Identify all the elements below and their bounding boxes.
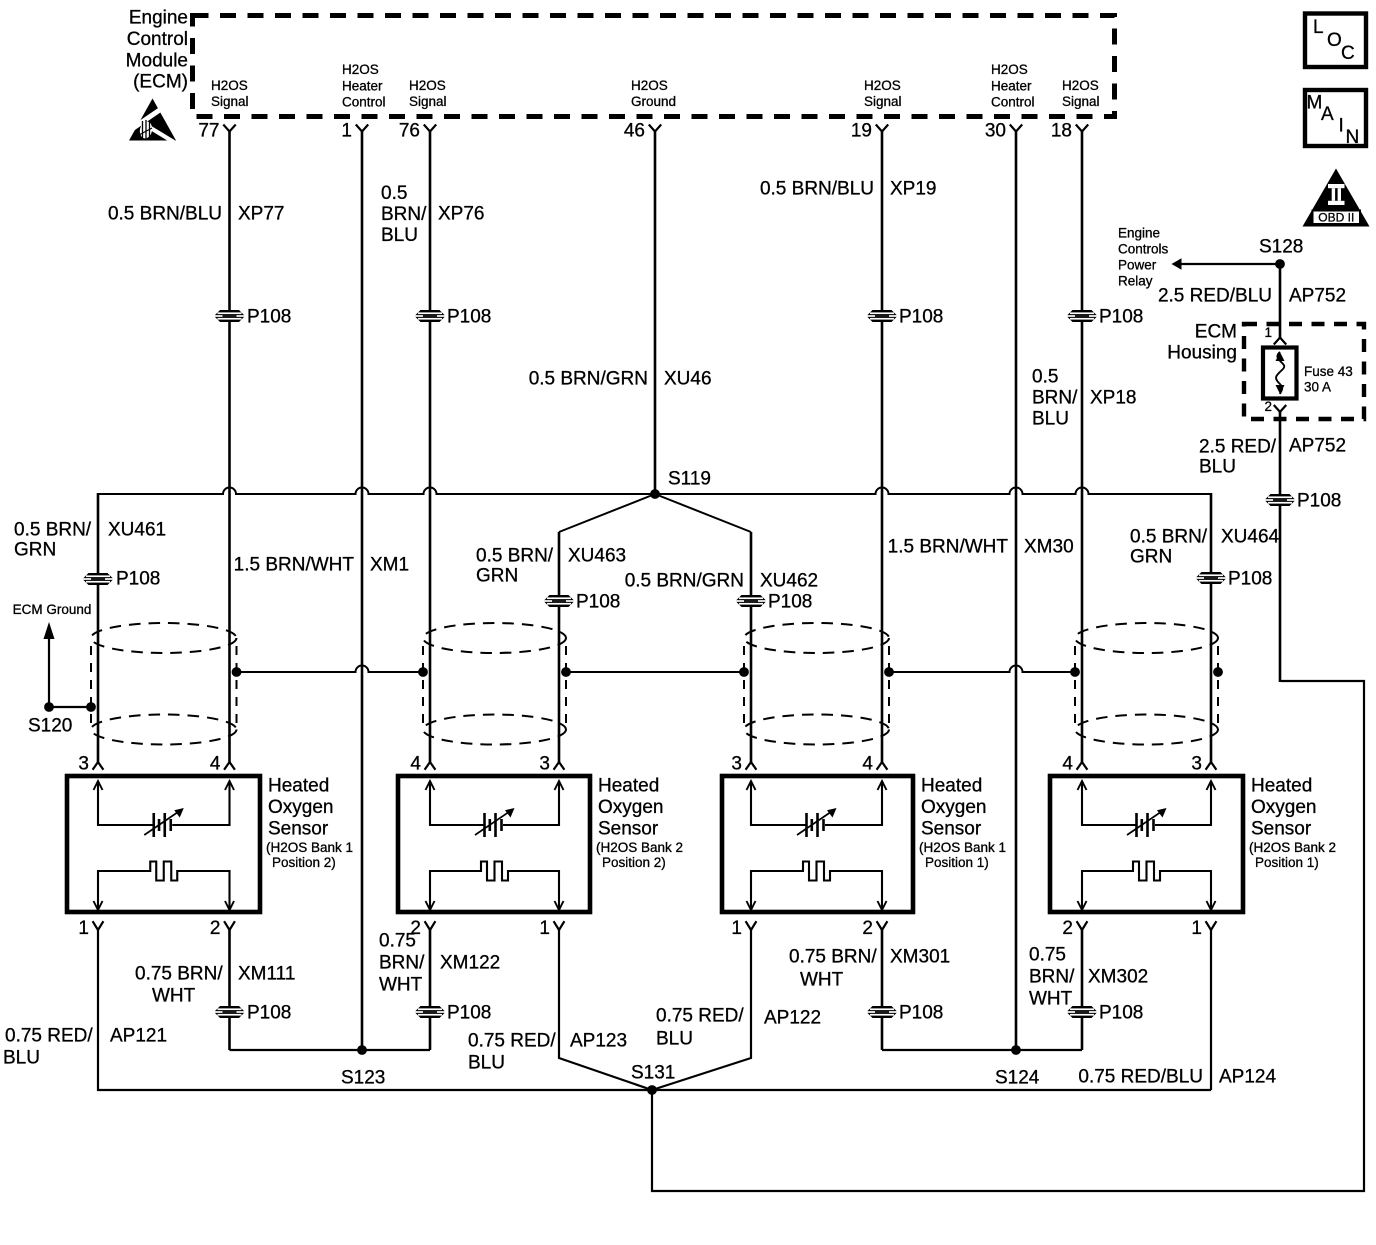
svg-text:H2OS: H2OS xyxy=(409,78,446,93)
wire XU461 0.5 BRN/GRN (bus to sensor1 pin 3) xyxy=(97,493,100,762)
wire XM302 0.75 BRN/WHT (sensor4 pin 2 to S124) xyxy=(1081,930,1084,1050)
svg-text:0.75: 0.75 xyxy=(1029,945,1066,966)
svg-text:WHT: WHT xyxy=(152,986,196,1007)
connector P108 on XM122 xyxy=(415,1003,492,1024)
svg-text:1.5 BRN/WHT: 1.5 BRN/WHT xyxy=(234,555,355,576)
svg-text:P108: P108 xyxy=(899,1003,943,1024)
sensor label (H2OS Bank 1 Position 1) xyxy=(919,776,1006,870)
sensor cell element (variable voltage cell) xyxy=(94,781,235,837)
svg-text:XM30: XM30 xyxy=(1024,537,1074,558)
svg-text:XM111: XM111 xyxy=(238,964,295,985)
svg-text:Fuse 43: Fuse 43 xyxy=(1304,364,1353,379)
connector P108 on XP76 xyxy=(415,307,492,328)
svg-text:Signal: Signal xyxy=(409,94,447,109)
svg-text:S120: S120 xyxy=(28,716,72,737)
svg-text:0.75 BRN/: 0.75 BRN/ xyxy=(135,964,223,985)
ECM pin 18 terminal xyxy=(1051,78,1100,142)
svg-text:S124: S124 xyxy=(995,1068,1040,1089)
sensor heater element xyxy=(94,862,235,911)
wire XP19 0.5 BRN/BLU (pin 19 to sensor3 pin 4) xyxy=(881,132,884,763)
wire XM30 1.5 BRN/WHT (pin 30 heater control to S124) xyxy=(1015,132,1018,1051)
wire branch S119 to XU462 xyxy=(655,494,751,532)
sensor pin 4 terminal (top left) xyxy=(410,754,435,775)
label 0.5 BRN/BLU XP76 xyxy=(381,183,484,246)
svg-text:BRN/: BRN/ xyxy=(379,953,425,974)
svg-text:(H2OS Bank 1: (H2OS Bank 1 xyxy=(266,840,353,855)
wire XP76 0.5 BRN/BLU (pin 76 to sensor2 pin 4) xyxy=(429,132,432,763)
svg-text:3: 3 xyxy=(78,754,89,775)
svg-text:P108: P108 xyxy=(447,1003,491,1024)
svg-text:XM1: XM1 xyxy=(370,555,409,576)
svg-text:4: 4 xyxy=(410,754,421,775)
svg-text:2.5 RED/: 2.5 RED/ xyxy=(1199,437,1277,458)
sensor pin 3 terminal (top left) xyxy=(78,754,103,775)
svg-text:Housing: Housing xyxy=(1167,343,1237,364)
svg-text:L: L xyxy=(1313,17,1324,38)
sensor cell element (variable voltage cell) xyxy=(426,781,564,837)
svg-text:Control: Control xyxy=(127,29,188,50)
svg-text:Heated: Heated xyxy=(1251,776,1312,797)
connector P108 on XM302 xyxy=(1067,1003,1144,1024)
ground bus wire from XU461 to XU464 (hops over crossing wires) xyxy=(98,488,1211,495)
svg-text:H2OS: H2OS xyxy=(342,62,379,77)
svg-text:3: 3 xyxy=(1191,754,1202,775)
connector P108 on XU461 xyxy=(83,569,161,590)
connector P108 on XU463 xyxy=(544,592,621,613)
splice S123 wire xyxy=(230,1045,431,1089)
sensor heater element xyxy=(1078,862,1216,911)
svg-text:H2OS: H2OS xyxy=(211,78,248,93)
svg-text:2: 2 xyxy=(1264,399,1272,414)
svg-text:Engine: Engine xyxy=(1118,225,1160,240)
svg-text:P108: P108 xyxy=(447,307,491,328)
svg-text:4: 4 xyxy=(210,754,221,775)
svg-text:P108: P108 xyxy=(1297,491,1341,512)
wire from Engine Controls Power Relay to S128 (arrow) xyxy=(1172,258,1281,270)
label 0.75 BRN/WHT XM111 xyxy=(135,964,295,1007)
svg-text:1: 1 xyxy=(341,121,352,142)
svg-text:BLU: BLU xyxy=(381,225,418,246)
label 0.5 BRN/GRN XU463 xyxy=(476,546,626,587)
svg-text:A: A xyxy=(1321,104,1334,125)
svg-text:P108: P108 xyxy=(247,1003,291,1024)
svg-text:Oxygen: Oxygen xyxy=(268,797,333,818)
MAIN reference box xyxy=(1305,90,1366,148)
svg-text:4: 4 xyxy=(1062,754,1073,775)
label 0.75 BRN/WHT XM122 xyxy=(379,931,500,996)
sensor cell element (variable voltage cell) xyxy=(747,781,887,837)
svg-text:(ECM): (ECM) xyxy=(133,72,188,93)
svg-text:Controls: Controls xyxy=(1118,241,1169,256)
svg-text:Signal: Signal xyxy=(864,94,902,109)
splice S131 xyxy=(631,1063,675,1095)
svg-text:ECM Ground: ECM Ground xyxy=(13,602,92,617)
fuse pin 1 terminal xyxy=(1264,325,1286,345)
svg-text:0.5 BRN/BLU: 0.5 BRN/BLU xyxy=(760,179,874,200)
wire XP18 0.5 BRN/BLU (pin 18 to sensor4 pin 4) xyxy=(1081,132,1084,763)
svg-text:AP123: AP123 xyxy=(570,1031,627,1052)
svg-text:GRN: GRN xyxy=(1130,547,1172,568)
label 0.5 BRN/BLU XP77 xyxy=(108,204,285,225)
svg-text:0.5 BRN/BLU: 0.5 BRN/BLU xyxy=(108,204,222,225)
label 0.5 BRN/BLU XP19 xyxy=(760,179,937,200)
sensor pin 1 terminal (bottom right) xyxy=(539,918,564,939)
svg-text:Position 2): Position 2) xyxy=(272,855,336,870)
svg-text:P108: P108 xyxy=(576,592,620,613)
svg-text:XP76: XP76 xyxy=(438,204,484,225)
svg-text:XM122: XM122 xyxy=(440,953,500,974)
sensor cell element (variable voltage cell) xyxy=(1078,781,1216,837)
heated oxygen sensor box (H2OS Bank 1 Position 2) xyxy=(67,776,260,912)
wire XU464 0.5 BRN/GRN (bus to sensor4 pin 3) xyxy=(1210,493,1213,762)
svg-text:0.75 RED/BLU: 0.75 RED/BLU xyxy=(1078,1067,1203,1088)
wire S131 loop to fuse (bottom return) xyxy=(652,681,1364,1191)
svg-text:1: 1 xyxy=(78,918,89,939)
wire S131 to AP124 xyxy=(652,1089,1211,1091)
svg-text:P108: P108 xyxy=(1099,307,1143,328)
ECM Housing dashed box xyxy=(1244,324,1364,419)
svg-text:Heater: Heater xyxy=(991,78,1032,93)
fuse pin 2 terminal xyxy=(1264,399,1286,414)
svg-text:19: 19 xyxy=(851,121,872,142)
svg-text:XU461: XU461 xyxy=(108,520,166,541)
wire XU462 0.5 BRN/GRN (S119 to sensor3 pin 3) xyxy=(750,532,753,762)
wire AP752 2.5 RED/BLU (S128 to fuse 43) xyxy=(1279,264,1282,338)
svg-text:P108: P108 xyxy=(768,592,812,613)
svg-text:GRN: GRN xyxy=(14,540,56,561)
label 2.5 RED/BLU AP752 (below fuse) xyxy=(1199,436,1346,478)
sensor pin 2 terminal (bottom right) xyxy=(862,918,887,939)
wire AP123 0.75 RED/BLU (sensor2 pin 1 to S131) xyxy=(559,930,652,1090)
svg-text:Oxygen: Oxygen xyxy=(1251,797,1316,818)
svg-text:AP752: AP752 xyxy=(1289,286,1346,307)
svg-text:GRN: GRN xyxy=(476,566,518,587)
svg-text:OBD II: OBD II xyxy=(1318,211,1354,225)
label 0.75 RED/BLU AP121 xyxy=(3,1026,167,1069)
svg-text:BLU: BLU xyxy=(468,1053,505,1074)
sensor pin 4 terminal (top left) xyxy=(1062,754,1087,775)
heated oxygen sensor box (H2OS Bank 2 Position 1) xyxy=(1050,776,1243,912)
svg-text:O: O xyxy=(1327,30,1342,51)
svg-text:S123: S123 xyxy=(341,1068,385,1089)
svg-text:0.5: 0.5 xyxy=(381,183,407,204)
svg-text:0.75 RED/: 0.75 RED/ xyxy=(468,1031,556,1052)
fuse 43 30A xyxy=(1263,348,1297,399)
sensor4 cable shield (dashed cylinder) xyxy=(1075,623,1218,745)
svg-text:S128: S128 xyxy=(1259,237,1303,258)
ECM pin 1 terminal xyxy=(341,62,385,142)
svg-text:Heated: Heated xyxy=(268,776,329,797)
ECM pin 30 terminal xyxy=(985,62,1035,142)
splice S124 wire xyxy=(882,1045,1082,1089)
svg-text:H2OS: H2OS xyxy=(991,62,1028,77)
svg-text:Position 1): Position 1) xyxy=(1255,855,1319,870)
ECM pin 77 terminal xyxy=(198,78,248,142)
svg-text:WHT: WHT xyxy=(800,970,844,991)
sensor pin 1 terminal (bottom right) xyxy=(1191,918,1216,939)
svg-text:Signal: Signal xyxy=(1062,94,1100,109)
sensor label (H2OS Bank 2 Position 2) xyxy=(596,776,683,870)
wire XP77 0.5 BRN/BLU (pin 77 to sensor1 pin 4) xyxy=(228,132,231,763)
svg-text:1: 1 xyxy=(1191,918,1202,939)
svg-text:Relay: Relay xyxy=(1118,273,1153,288)
svg-text:Sensor: Sensor xyxy=(921,819,982,840)
svg-text:P108: P108 xyxy=(1228,569,1272,590)
svg-text:P108: P108 xyxy=(116,569,160,590)
wire AP121 0.75 RED/BLU (sensor1 pin 1 to S131) xyxy=(98,930,652,1090)
svg-text:0.5 BRN/: 0.5 BRN/ xyxy=(14,520,92,541)
svg-text:Control: Control xyxy=(342,94,386,109)
sensor pin 2 terminal (bottom right) xyxy=(210,918,235,939)
svg-text:BLU: BLU xyxy=(1199,457,1236,478)
shield link wire sensor3 to sensor4 xyxy=(884,666,1080,677)
sensor heater element xyxy=(747,862,887,911)
svg-text:3: 3 xyxy=(539,754,550,775)
svg-text:0.75 RED/: 0.75 RED/ xyxy=(5,1026,93,1047)
svg-text:XU462: XU462 xyxy=(760,571,818,592)
label 0.5 BRN/GRN XU462 xyxy=(625,571,818,592)
wire XU463 0.5 BRN/GRN (S119 to sensor2 pin 3) xyxy=(558,532,561,762)
svg-text:AP124: AP124 xyxy=(1219,1067,1276,1088)
svg-text:76: 76 xyxy=(399,121,420,142)
svg-text:0.5 BRN/GRN: 0.5 BRN/GRN xyxy=(625,571,744,592)
svg-text:(H2OS Bank 2: (H2OS Bank 2 xyxy=(596,840,683,855)
svg-text:(H2OS Bank 2: (H2OS Bank 2 xyxy=(1249,840,1336,855)
label 1.5 BRN/WHT XM1 xyxy=(234,555,409,576)
svg-text:Heater: Heater xyxy=(342,78,383,93)
svg-text:H2OS: H2OS xyxy=(864,78,901,93)
connector P108 on XP77 xyxy=(214,307,291,328)
svg-text:WHT: WHT xyxy=(1029,989,1073,1010)
sensor pin 1 terminal (bottom left) xyxy=(78,918,103,939)
splice S128 xyxy=(1259,237,1303,269)
svg-text:1: 1 xyxy=(539,918,550,939)
svg-text:ECM: ECM xyxy=(1195,322,1237,343)
svg-text:S119: S119 xyxy=(668,469,711,490)
svg-text:Ground: Ground xyxy=(631,94,676,109)
svg-text:BRN/: BRN/ xyxy=(381,204,427,225)
svg-text:46: 46 xyxy=(624,121,645,142)
label 0.5 BRN/GRN XU464 xyxy=(1130,527,1280,568)
svg-text:2: 2 xyxy=(1062,918,1073,939)
heated oxygen sensor box (H2OS Bank 2 Position 2) xyxy=(398,776,590,912)
heated oxygen sensor box (H2OS Bank 1 Position 1) xyxy=(722,776,913,912)
svg-text:1.5 BRN/WHT: 1.5 BRN/WHT xyxy=(888,537,1009,558)
sensor label (H2OS Bank 1 Position 2) xyxy=(266,776,353,870)
svg-text:(H2OS Bank 1: (H2OS Bank 1 xyxy=(919,840,1006,855)
svg-text:0.75 RED/: 0.75 RED/ xyxy=(656,1006,744,1027)
connector P108 on XM301 xyxy=(867,1003,944,1024)
svg-text:Module: Module xyxy=(126,50,188,71)
ECM pin 76 terminal xyxy=(399,78,447,142)
wire AP122 0.75 RED/BLU (sensor3 pin 1 to S131) xyxy=(652,930,751,1090)
svg-text:0.75: 0.75 xyxy=(379,931,416,952)
sensor pin 3 terminal (top right) xyxy=(1191,754,1216,775)
svg-text:P108: P108 xyxy=(247,307,291,328)
label 0.75 RED/BLU AP123 xyxy=(468,1031,627,1074)
label 0.75 RED/BLU AP122 xyxy=(656,1006,821,1050)
svg-text:0.75 BRN/: 0.75 BRN/ xyxy=(789,947,877,968)
svg-text:H2OS: H2OS xyxy=(1062,78,1099,93)
connector P108 on XP19 xyxy=(867,307,944,328)
shield link wire sensor2 to sensor3 xyxy=(561,667,749,677)
label 2.5 RED/BLU AP752 xyxy=(1158,286,1346,307)
svg-text:Sensor: Sensor xyxy=(598,819,659,840)
connector P108 on XM111 xyxy=(214,1003,291,1024)
svg-text:BLU: BLU xyxy=(3,1048,40,1069)
svg-text:2.5 RED/BLU: 2.5 RED/BLU xyxy=(1158,286,1272,307)
svg-text:2: 2 xyxy=(862,918,873,939)
wire XM122 0.75 BRN/WHT (sensor2 pin 2 to S123) xyxy=(429,930,432,1050)
wire AP124 0.75 RED/BLU (sensor4 pin 1 to S131) xyxy=(1210,930,1212,1090)
label 0.5 BRN/BLU XP18 xyxy=(1032,367,1136,430)
svg-text:XU464: XU464 xyxy=(1221,527,1280,548)
svg-text:Heated: Heated xyxy=(921,776,982,797)
svg-text:P108: P108 xyxy=(899,307,943,328)
sensor pin 3 terminal (top right) xyxy=(539,754,564,775)
ECM pin 46 terminal xyxy=(624,78,676,142)
sensor1 cable shield (dashed cylinder) xyxy=(91,623,237,745)
ESD sensitivity symbol xyxy=(126,99,182,148)
svg-text:77: 77 xyxy=(198,121,219,142)
sensor pin 2 terminal (bottom left) xyxy=(1062,918,1087,939)
wire branch S119 to XU463 xyxy=(559,494,655,532)
svg-text:XU463: XU463 xyxy=(568,546,626,567)
svg-text:2: 2 xyxy=(210,918,221,939)
svg-text:S131: S131 xyxy=(631,1063,675,1084)
svg-text:30 A: 30 A xyxy=(1304,379,1331,394)
splice S120 (shield drain to ECM ground) xyxy=(28,702,96,737)
svg-text:BRN/: BRN/ xyxy=(1029,967,1075,988)
wire XM111 0.75 BRN/WHT (sensor1 pin 2 to S123) xyxy=(228,930,231,1050)
svg-text:4: 4 xyxy=(862,754,873,775)
svg-text:18: 18 xyxy=(1051,121,1072,142)
label 1.5 BRN/WHT XM30 xyxy=(888,537,1074,558)
Engine Control Module (ECM) dashed box xyxy=(193,16,1115,117)
shield link wire sensor1 to sensor2 xyxy=(232,666,428,677)
svg-text:0.5 BRN/: 0.5 BRN/ xyxy=(1130,527,1208,548)
svg-text:Sensor: Sensor xyxy=(1251,819,1312,840)
sensor pin 4 terminal (top right) xyxy=(862,754,887,775)
svg-text:1: 1 xyxy=(1264,325,1272,340)
svg-text:XP18: XP18 xyxy=(1090,388,1136,409)
sensor pin 1 terminal (bottom left) xyxy=(731,918,756,939)
label 0.75 BRN/WHT XM302 xyxy=(1029,945,1148,1010)
svg-text:Heated: Heated xyxy=(598,776,659,797)
wire XM1 1.5 BRN/WHT (pin 1 heater control to S123) xyxy=(361,132,364,1051)
svg-text:BRN/: BRN/ xyxy=(1032,388,1078,409)
svg-text:AP121: AP121 xyxy=(110,1026,167,1047)
splice S119 xyxy=(650,469,711,499)
svg-text:XM302: XM302 xyxy=(1088,967,1148,988)
sensor pin 3 terminal (top left) xyxy=(731,754,756,775)
svg-text:Signal: Signal xyxy=(211,94,249,109)
sensor pin 4 terminal (top right) xyxy=(210,754,235,775)
svg-text:0.5 BRN/: 0.5 BRN/ xyxy=(476,546,554,567)
svg-text:XP77: XP77 xyxy=(238,204,284,225)
svg-text:BLU: BLU xyxy=(1032,409,1069,430)
ECM title label xyxy=(126,8,188,93)
svg-text:XP19: XP19 xyxy=(890,179,936,200)
svg-text:Oxygen: Oxygen xyxy=(598,797,663,818)
svg-text:P108: P108 xyxy=(1099,1003,1143,1024)
shield terminal dot sensor4 right xyxy=(1213,667,1223,677)
ECM Housing label xyxy=(1167,322,1237,364)
svg-text:H2OS: H2OS xyxy=(631,78,668,93)
sensor pin 2 terminal (bottom left) xyxy=(410,918,435,939)
wire XU46 0.5 BRN/GRN (pin 46 H2OS ground to S119) xyxy=(654,132,657,495)
ECM pin 19 terminal xyxy=(851,78,902,142)
svg-text:M: M xyxy=(1307,93,1323,114)
svg-text:Control: Control xyxy=(991,94,1035,109)
OBD II symbol (triangle) xyxy=(1303,169,1370,227)
svg-text:BLU: BLU xyxy=(656,1029,693,1050)
svg-text:Position 2): Position 2) xyxy=(602,855,666,870)
svg-text:Power: Power xyxy=(1118,257,1157,272)
sensor heater element xyxy=(426,862,564,911)
svg-text:1: 1 xyxy=(731,918,742,939)
svg-text:WHT: WHT xyxy=(379,975,423,996)
label 0.5 BRN/GRN XU46 xyxy=(529,369,712,390)
connector P108 on AP752 xyxy=(1265,491,1342,512)
svg-text:3: 3 xyxy=(731,754,742,775)
label 0.75 BRN/WHT XM301 xyxy=(789,947,950,991)
svg-text:Oxygen: Oxygen xyxy=(921,797,986,818)
Engine Controls Power Relay label xyxy=(1118,225,1169,288)
Fuse 43 30 A label xyxy=(1304,364,1353,395)
connector P108 on XU464 xyxy=(1196,569,1273,590)
svg-text:30: 30 xyxy=(985,121,1006,142)
connector P108 on XU462 xyxy=(736,592,813,613)
svg-text:Position 1): Position 1) xyxy=(925,855,989,870)
sensor3 cable shield (dashed cylinder) xyxy=(744,623,889,745)
wire XM301 0.75 BRN/WHT (sensor3 pin 2 to S124) xyxy=(881,930,884,1050)
sensor2 cable shield (dashed cylinder) xyxy=(423,623,566,745)
svg-text:XM301: XM301 xyxy=(890,947,950,968)
wire AP752 2.5 RED/BLU (fuse to bottom loop) xyxy=(1279,412,1282,682)
svg-text:AP752: AP752 xyxy=(1289,436,1346,457)
svg-text:AP122: AP122 xyxy=(764,1008,821,1029)
svg-text:Engine: Engine xyxy=(129,8,188,29)
svg-text:N: N xyxy=(1346,127,1360,148)
connector P108 on XP18 xyxy=(1067,307,1144,328)
LOC reference box xyxy=(1305,14,1366,68)
svg-text:I: I xyxy=(1339,116,1344,137)
svg-text:0.5 BRN/GRN: 0.5 BRN/GRN xyxy=(529,369,648,390)
svg-text:0.5: 0.5 xyxy=(1032,367,1058,388)
svg-text:XU46: XU46 xyxy=(664,369,712,390)
ECM Ground arrow symbol xyxy=(13,602,92,707)
label 0.75 RED/BLU AP124 xyxy=(1078,1067,1276,1088)
label 0.5 BRN/GRN XU461 xyxy=(14,520,166,561)
sensor label (H2OS Bank 2 Position 1) xyxy=(1249,776,1336,870)
svg-text:C: C xyxy=(1341,43,1355,64)
svg-text:Sensor: Sensor xyxy=(268,819,329,840)
